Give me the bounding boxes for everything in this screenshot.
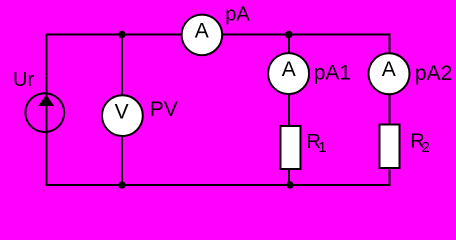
label R1 <box>307 131 327 156</box>
ammeter pA1 <box>268 53 309 94</box>
current source Ur <box>25 93 64 132</box>
junction node bottom PV <box>118 181 126 189</box>
label R2 <box>410 131 430 157</box>
svg-text:A: A <box>382 58 396 81</box>
wire pA2/R2 branch <box>389 34 391 187</box>
junction node bottom R1 <box>286 181 293 188</box>
wire pA1/R1 branch <box>288 35 290 186</box>
svg-text:PV: PV <box>150 98 178 121</box>
wire top bus <box>46 34 391 36</box>
resistor R2 <box>380 125 400 169</box>
ammeter pA <box>182 15 223 56</box>
wire bottom bus <box>46 184 391 186</box>
svg-text:pA2: pA2 <box>415 62 452 85</box>
resistor R1 <box>281 126 301 169</box>
svg-text:pA: pA <box>225 4 250 26</box>
svg-text:Ur: Ur <box>13 69 34 91</box>
svg-text:1: 1 <box>318 139 326 156</box>
ammeter pA2 <box>369 53 410 94</box>
svg-text:A: A <box>282 58 296 81</box>
svg-text:2: 2 <box>422 139 430 156</box>
wire PV branch <box>121 35 123 186</box>
wire left branch <box>46 34 48 187</box>
svg-text:pA1: pA1 <box>314 61 351 84</box>
junction node top pA1 <box>285 31 293 39</box>
svg-text:A: A <box>195 20 209 43</box>
svg-text:V: V <box>115 101 129 124</box>
junction node top PV <box>118 31 125 38</box>
voltmeter PV <box>102 95 143 136</box>
